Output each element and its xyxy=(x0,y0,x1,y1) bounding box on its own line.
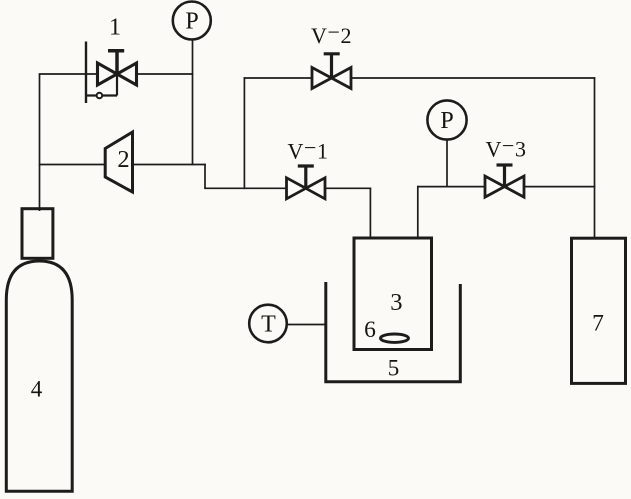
wire: V-2 branch riser xyxy=(243,77,245,189)
wire: compressor outlet xyxy=(133,164,206,166)
wire: cylinder riser xyxy=(39,74,41,211)
wire: V-1 outlet xyxy=(325,187,371,189)
svg-text:V−3: V−3 xyxy=(485,133,526,162)
valve V-3 xyxy=(485,165,524,197)
gas cylinder 4 xyxy=(6,209,72,492)
svg-text:3: 3 xyxy=(390,289,402,316)
svg-text:T: T xyxy=(261,312,276,338)
svg-text:V−1: V−1 xyxy=(287,135,328,164)
wire: step down segment xyxy=(204,164,206,189)
valve 1 (cylinder pressure regulator) xyxy=(86,42,137,104)
valve V-1 xyxy=(287,166,326,199)
wire: vessel 3 right port riser xyxy=(417,186,419,238)
svg-text:V−2: V−2 xyxy=(311,19,352,48)
svg-text:5: 5 xyxy=(388,356,400,381)
gauge P2 xyxy=(427,100,466,139)
valve V-2 xyxy=(312,54,351,89)
wire: V-3 outlet xyxy=(525,186,596,188)
svg-text:P: P xyxy=(440,108,453,134)
wire: V-2 outlet (top run) xyxy=(351,77,595,79)
compressor 2 xyxy=(105,132,132,192)
wire: line from vessel to V-3 xyxy=(417,186,485,188)
wire: regulator outlet to gauge riser xyxy=(137,73,194,75)
wire: right downcomer to container 7 xyxy=(594,77,596,238)
svg-text:P: P xyxy=(185,9,198,35)
svg-text:4: 4 xyxy=(31,377,43,402)
bath 5 (open container) xyxy=(326,282,461,382)
vessel 3 (reactor) xyxy=(354,238,432,350)
svg-text:6: 6 xyxy=(364,317,376,343)
svg-text:2: 2 xyxy=(117,146,129,173)
wire: compressor inlet xyxy=(39,164,105,166)
wire: regulator inlet line xyxy=(39,73,98,75)
container 7 (collector) xyxy=(572,238,626,383)
wire: downcomer into vessel 3 (left port) xyxy=(369,188,371,239)
gauge P1 xyxy=(173,2,211,40)
svg-text:1: 1 xyxy=(109,15,121,41)
wire: gauge P1 riser xyxy=(192,40,194,166)
svg-text:7: 7 xyxy=(592,310,604,336)
gauge T (thermometer) xyxy=(249,305,287,343)
wire: main line to valve V-1 xyxy=(204,187,287,189)
stir bar 6 xyxy=(381,334,409,342)
wire: thermometer T lead xyxy=(287,324,328,326)
wire: gauge P2 stem xyxy=(446,140,448,188)
wire: V-2 inlet xyxy=(244,77,312,79)
